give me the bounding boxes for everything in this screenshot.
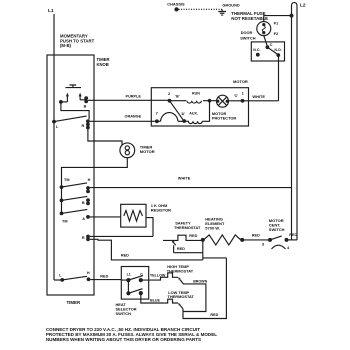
svg-text:BROWN: BROWN xyxy=(193,279,207,283)
svg-text:THERMOSTAT: THERMOSTAT xyxy=(174,225,201,230)
svg-text:7: 7 xyxy=(156,110,159,115)
wire safety thermostat return xyxy=(174,252,203,254)
svg-text:4: 4 xyxy=(287,245,290,250)
low temp thermostat xyxy=(165,299,178,303)
svg-text:L: L xyxy=(56,125,59,129)
svg-text:SWITCH: SWITCH xyxy=(240,35,256,40)
svg-text:2: 2 xyxy=(168,91,171,96)
timer motor xyxy=(120,143,135,158)
svg-text:PURPLE: PURPLE xyxy=(126,94,142,98)
motor protector xyxy=(217,95,229,107)
motor box outline xyxy=(151,88,248,126)
svg-text:WHITE: WHITE xyxy=(252,94,265,99)
thermal fuse F1-F2 xyxy=(257,22,271,36)
node L2 tap dot xyxy=(290,14,294,18)
svg-text:KNOB: KNOB xyxy=(97,62,109,67)
svg-text:N.O.: N.O. xyxy=(274,48,281,52)
svg-text:DOOR: DOOR xyxy=(241,30,253,35)
svg-text:N.C.: N.C. xyxy=(253,48,260,52)
svg-text:THERMOSTAT: THERMOSTAT xyxy=(167,269,194,274)
wire heater node vertical xyxy=(202,240,204,260)
wire R to timer motor xyxy=(88,128,122,146)
svg-text:MOTOR: MOTOR xyxy=(233,79,248,84)
motor terminal C 1 xyxy=(229,100,243,102)
resistor R 1K box xyxy=(121,204,146,227)
svg-text:L1: L1 xyxy=(127,272,131,276)
motor internal cent switch arc xyxy=(157,113,178,122)
svg-text:F1: F1 xyxy=(274,20,279,25)
wire L1 supply line xyxy=(53,14,55,280)
svg-text:BLUE: BLUE xyxy=(150,299,160,303)
svg-text:WHITE: WHITE xyxy=(178,176,191,181)
svg-text:L2: L2 xyxy=(300,3,306,9)
motor terminal 2 xyxy=(151,99,169,101)
svg-text:RED: RED xyxy=(100,274,108,278)
svg-text:THERMOSTAT: THERMOSTAT xyxy=(168,294,195,299)
wire resistor output xyxy=(146,218,153,237)
svg-text:RED: RED xyxy=(289,233,297,237)
node R terminal dots xyxy=(86,119,90,123)
wire red timer to heat selector xyxy=(90,279,128,282)
svg-text:'C': 'C' xyxy=(234,94,238,98)
wire white motor to door xyxy=(243,100,279,102)
svg-text:RUN: RUN xyxy=(192,92,200,96)
timer switch arm TM-H xyxy=(62,183,88,187)
svg-text:H: H xyxy=(87,271,90,275)
safety thermostat xyxy=(163,235,203,240)
svg-text:3: 3 xyxy=(262,242,265,247)
timer box outline xyxy=(47,55,94,295)
motor centrifugal switch xyxy=(268,238,272,242)
svg-text:RED: RED xyxy=(121,254,129,258)
svg-text:TIMER: TIMER xyxy=(67,300,81,305)
svg-text:B: B xyxy=(82,201,85,205)
heat selector switch xyxy=(121,267,148,300)
wire orange xyxy=(90,120,152,122)
svg-text:B: B xyxy=(84,105,87,109)
node M contact dot xyxy=(59,100,63,104)
TM contact column xyxy=(61,187,63,213)
wire white H to motor junction xyxy=(90,187,292,189)
run winding xyxy=(170,100,187,102)
heating element xyxy=(204,235,241,245)
L2 supply bus xyxy=(292,3,298,240)
push-to-start button xyxy=(66,85,82,88)
svg-text:R: R xyxy=(82,124,85,128)
wire M to R corner xyxy=(61,102,89,120)
svg-text:PROTECTOR: PROTECTOR xyxy=(212,115,237,120)
wire red low temp return xyxy=(183,258,226,319)
svg-text:SWITCH: SWITCH xyxy=(116,311,132,316)
node L contact dot xyxy=(52,120,56,124)
svg-text:ORANGE: ORANGE xyxy=(125,115,142,119)
svg-text:1: 1 xyxy=(242,91,245,96)
svg-text:R: R xyxy=(82,236,85,240)
svg-text:RED: RED xyxy=(252,234,260,238)
node heating element junction dot xyxy=(201,238,205,242)
timer switch arm L-R xyxy=(54,116,87,122)
wire cent switch to L2 xyxy=(288,239,297,241)
wire yellow xyxy=(141,277,165,280)
svg-text:F2: F2 xyxy=(274,31,279,36)
svg-text:NUMBERS WHEN WRITING ABOUT THI: NUMBERS WHEN WRITING ABOUT THIS DRYER OR… xyxy=(46,337,201,342)
door switch arm C-NO xyxy=(267,47,278,55)
motor switch arm 2 to A xyxy=(170,101,184,121)
svg-text:TM: TM xyxy=(64,178,69,182)
wire node to low temp return xyxy=(203,257,227,259)
node B2 terminal dots xyxy=(86,198,90,202)
svg-text:RED: RED xyxy=(210,313,218,317)
wire door NO down to white junction xyxy=(278,55,280,101)
wire R to resistor junction xyxy=(90,235,153,237)
ground symbol xyxy=(218,9,226,15)
svg-text:TM: TM xyxy=(62,220,67,224)
svg-text:A: A xyxy=(82,217,85,221)
node H terminal dots xyxy=(86,186,90,190)
push button right contact arrow xyxy=(79,96,81,100)
svg-text:5700 W.: 5700 W. xyxy=(205,226,220,231)
svg-text:RESISTOR: RESISTOR xyxy=(151,208,171,213)
push button left contact arrow xyxy=(66,96,68,102)
svg-text:L: L xyxy=(59,273,62,277)
svg-text:RED: RED xyxy=(177,247,185,251)
wire A to resistor xyxy=(90,216,121,218)
svg-text:YELLOW: YELLOW xyxy=(150,273,166,277)
wire left arrow base xyxy=(61,101,68,103)
svg-text:RED: RED xyxy=(189,234,197,238)
wire red R branch to heater node xyxy=(90,239,203,260)
svg-text:'B': 'B' xyxy=(175,95,179,99)
svg-text:AUX.: AUX. xyxy=(189,111,198,115)
svg-text:C: C xyxy=(270,43,273,47)
wire right arrow base xyxy=(80,99,86,101)
wire blue xyxy=(141,293,165,303)
svg-text:SWITCH: SWITCH xyxy=(269,227,285,232)
timer switch arm TM-A xyxy=(62,209,88,213)
svg-text:CHASSIS: CHASSIS xyxy=(167,2,185,7)
node R2 terminal dots xyxy=(86,235,90,239)
timer heat contact L-H xyxy=(54,279,62,281)
node B terminal dots xyxy=(84,96,88,100)
wire L2 to thermal fuse xyxy=(264,16,292,22)
svg-text:NOT RESETABLE: NOT RESETABLE xyxy=(231,16,268,21)
wire element to cent switch xyxy=(242,239,270,241)
wire purple xyxy=(88,99,151,101)
wire timer motor to TM column xyxy=(62,158,128,187)
node A terminal dot xyxy=(86,215,90,219)
svg-text:H: H xyxy=(88,178,91,182)
svg-text:'A': 'A' xyxy=(181,112,185,116)
svg-text:MOTOR: MOTOR xyxy=(140,149,155,154)
wire brown xyxy=(183,284,206,312)
svg-text:(M-B): (M-B) xyxy=(60,43,72,48)
svg-text:GROUND: GROUND xyxy=(222,2,239,7)
motor terminal 7 xyxy=(151,120,157,122)
svg-text:L1: L1 xyxy=(48,8,54,14)
timer switch arm TM-B xyxy=(62,196,88,200)
high temp thermostat xyxy=(165,273,178,277)
